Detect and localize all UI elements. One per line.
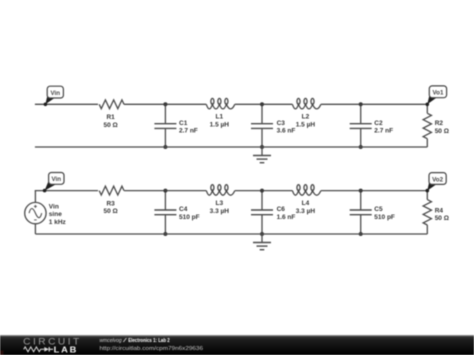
svg-text:L2: L2 — [302, 114, 310, 121]
footer bar — [0, 335, 474, 355]
junction C2 top — [359, 102, 363, 106]
label V1 Vin sine 1 kHz — [49, 203, 67, 225]
svg-text:C5: C5 — [374, 206, 383, 213]
label L1 1.5 µH — [210, 114, 230, 129]
label L2 1.5 µH — [296, 114, 316, 129]
svg-text:C1: C1 — [179, 120, 188, 127]
svg-text:Vo2: Vo2 — [432, 176, 443, 183]
svg-text:2.7 nF: 2.7 nF — [179, 128, 198, 135]
svg-text:R3: R3 — [106, 200, 115, 207]
resistor R1 — [99, 100, 124, 109]
label C2 2.7 nF — [374, 120, 393, 135]
svg-text:C6: C6 — [277, 206, 286, 213]
svg-text:R1: R1 — [106, 114, 115, 121]
svg-text:1.5 µH: 1.5 µH — [296, 122, 316, 129]
svg-text:3.3 µH: 3.3 µH — [296, 208, 316, 215]
svg-text:sine: sine — [49, 211, 62, 218]
label C5 510 pF — [374, 206, 395, 221]
junction C6 top — [260, 189, 264, 193]
wire bottom rail (top circuit) — [35, 146, 427, 148]
svg-text:Vin: Vin — [52, 176, 62, 183]
capacitor C4 — [154, 191, 176, 234]
inductor L2 — [292, 98, 321, 109]
junction C3 bottom — [260, 145, 264, 149]
svg-text:C2: C2 — [374, 120, 383, 127]
svg-text:LAB: LAB — [54, 345, 79, 354]
svg-text:50 Ω: 50 Ω — [103, 122, 117, 129]
capacitor C5 — [350, 191, 372, 234]
label L3 3.3 µH — [210, 200, 230, 215]
label R3 50 Ω — [103, 200, 117, 215]
svg-text:L4: L4 — [302, 200, 310, 207]
label C1 2.7 nF — [179, 120, 198, 135]
wire bottom rail (bottom circuit) — [35, 233, 427, 235]
svg-text:C4: C4 — [179, 206, 188, 213]
inductor L4 — [292, 185, 321, 196]
svg-text:50 Ω: 50 Ω — [435, 215, 449, 222]
wire R3 to C4/L3 node — [124, 190, 206, 192]
resistor R2 — [423, 104, 431, 147]
wire L1 to C3/L2 node — [235, 103, 293, 105]
junction C5 bottom — [359, 232, 363, 236]
label R1 50 Ω — [103, 114, 117, 129]
label R4 50 Ω — [435, 207, 449, 222]
svg-text:1 kHz: 1 kHz — [49, 219, 67, 226]
junction C5 top — [359, 189, 363, 193]
junction C2 bottom — [359, 145, 363, 149]
junction C6 bottom — [260, 232, 264, 236]
svg-text:1.6 nF: 1.6 nF — [277, 214, 296, 221]
label L4 3.3 µH — [296, 200, 316, 215]
svg-text:510 pF: 510 pF — [374, 214, 395, 221]
junction C3 top — [260, 102, 264, 106]
capacitor C2 — [350, 104, 372, 147]
svg-text:C3: C3 — [277, 120, 286, 127]
node Vo2 — [426, 173, 447, 193]
resistor R4 — [423, 191, 431, 234]
wire source to R3 (top rail bottom circuit) — [35, 190, 98, 192]
node Vin (top circuit) — [44, 86, 64, 106]
footer title text — [100, 338, 171, 344]
svg-text:wmcelvog/Electronics 1: Lab 2: wmcelvog/Electronics 1: Lab 2 — [100, 338, 171, 344]
junction C4 bottom — [163, 232, 167, 236]
svg-text:3.3 µH: 3.3 µH — [210, 208, 230, 215]
wire R1 to C1/L1 node — [124, 103, 206, 105]
svg-text:Vin: Vin — [49, 203, 59, 210]
svg-text:L3: L3 — [216, 200, 224, 207]
wire L4 to C5/R4 node (Vo2) — [321, 190, 427, 192]
svg-text:3.6 nF: 3.6 nF — [277, 128, 296, 135]
inductor L3 — [206, 185, 235, 196]
junction C4 top — [163, 189, 167, 193]
inductor L1 — [206, 98, 235, 109]
svg-text:50 Ω: 50 Ω — [435, 128, 449, 135]
node Vin (bottom circuit) — [43, 173, 64, 193]
capacitor C6 — [251, 191, 273, 234]
capacitor C3 — [251, 104, 273, 147]
svg-text:50 Ω: 50 Ω — [103, 208, 117, 215]
svg-text:2.7 nF: 2.7 nF — [374, 128, 393, 135]
label C6 1.6 nF — [277, 206, 296, 221]
footer url text — [100, 346, 204, 352]
svg-text:R4: R4 — [435, 207, 444, 214]
svg-text:R2: R2 — [435, 120, 444, 127]
CircuitLab logo — [23, 336, 81, 354]
ground (bottom circuit) — [253, 234, 271, 250]
wire top rail input segment (Vin to R1) — [35, 103, 98, 105]
svg-text:L1: L1 — [216, 114, 224, 121]
svg-text:1.5 µH: 1.5 µH — [210, 122, 230, 129]
voltage source V1 (sine) — [25, 191, 46, 234]
label C3 3.6 nF — [277, 120, 296, 135]
capacitor C1 — [154, 104, 176, 147]
svg-text:Vin: Vin — [51, 90, 61, 97]
svg-text:Vo1: Vo1 — [433, 90, 444, 97]
resistor R3 — [99, 186, 124, 195]
svg-text:510 pF: 510 pF — [179, 214, 200, 221]
junction C1 top — [163, 102, 167, 106]
junction C1 bottom — [163, 145, 167, 149]
label C4 510 pF — [179, 206, 200, 221]
label R2 50 Ω — [435, 120, 449, 135]
svg-text:http://circuitlab.com/cpm79n6x: http://circuitlab.com/cpm79n6x29636 — [100, 346, 204, 352]
ground (top circuit) — [253, 147, 271, 163]
wire L2 to C2/R2 node (Vo1) — [321, 103, 427, 105]
node Vo1 — [426, 86, 447, 106]
wire L3 to C6/L4 node — [235, 190, 293, 192]
